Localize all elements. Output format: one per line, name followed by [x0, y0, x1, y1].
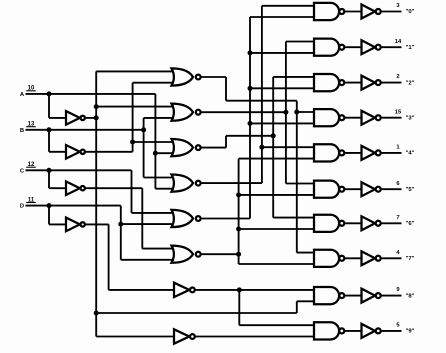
- junction G2 output at bus: [283, 110, 288, 115]
- wire A-bar (inverter A out to node): [85, 117, 96, 119]
- wire output "1": [381, 46, 402, 48]
- inverter D-bar: [66, 218, 85, 232]
- NAND gate Y9: [314, 322, 344, 339]
- wire NAND Y0 to inverter: [344, 11, 361, 13]
- wire NAND Y2 to inverter: [344, 82, 361, 84]
- wire output "9": [381, 330, 402, 332]
- svg-text:B: B: [20, 128, 24, 134]
- wire C-bar (inverter C out, down to NOR6 input): [85, 188, 174, 248]
- wire input A: [26, 94, 156, 118]
- junction B-bar vertical: [130, 140, 135, 145]
- input A pin 10 label: [26, 86, 36, 92]
- wire B-bar branch (NOR3.in1): [133, 141, 174, 143]
- wire output "2": [381, 82, 402, 84]
- wire input D: [26, 206, 121, 225]
- svg-text:"7": "7": [406, 256, 415, 262]
- inverter Y6 output: [362, 216, 381, 230]
- junctions on A-bar vertical: [94, 104, 99, 315]
- junction B line / branch: [141, 127, 146, 132]
- inverter U8 (A buffer): [174, 329, 195, 343]
- NAND gate Y6: [314, 215, 344, 232]
- junction A input: [47, 91, 52, 96]
- svg-text:"9": "9": [406, 329, 415, 335]
- wire input C: [26, 170, 132, 188]
- wire output "6": [381, 222, 402, 224]
- wire U8 output A (to NAND9.in2): [195, 336, 315, 338]
- wire U7 output D (to NAND8.in1 / NAND9.in1): [195, 290, 315, 325]
- inverter Y4 output: [362, 146, 381, 160]
- input B pin 13 label: [26, 122, 36, 128]
- NOR gate G2: [172, 104, 201, 121]
- junction D vertical at NOR5.in2: [118, 222, 123, 227]
- wire NAND Y3 to inverter: [344, 117, 361, 119]
- NAND gate Y7: [314, 250, 344, 267]
- inverter Y0 output: [362, 5, 381, 19]
- junction G4 bus at NAND4.in1: [259, 145, 264, 150]
- wire NAND Y8 to inverter: [344, 295, 361, 297]
- NAND gate Y8: [314, 287, 344, 304]
- svg-text:"1": "1": [406, 45, 415, 51]
- inverter Y9 output: [362, 324, 381, 338]
- wire NOR G2 output (to NAND1.in1 / NAND5.in1 bus): [201, 42, 314, 184]
- svg-text:"5": "5": [406, 187, 415, 193]
- NOR gate G1: [172, 68, 201, 85]
- wire D-bar (inverter D out, down to INV7 input): [85, 224, 174, 290]
- junction D input: [47, 203, 52, 208]
- inverter Y3 output: [362, 111, 381, 125]
- wire NAND Y1 to inverter: [344, 46, 361, 48]
- inverter Y7 output: [362, 251, 381, 265]
- junction G1 bus at NAND3.in1: [294, 110, 299, 115]
- junction U7 output branch: [237, 287, 242, 292]
- wire NAND Y7 to inverter: [344, 257, 361, 259]
- svg-text:14: 14: [395, 39, 402, 45]
- inverter A-bar: [66, 111, 85, 125]
- svg-text:"8": "8": [406, 293, 415, 299]
- inverter B-bar: [66, 145, 85, 159]
- wire output "3": [381, 117, 402, 119]
- junctions G5 bus: [248, 50, 253, 126]
- inverter Y5 output: [362, 182, 381, 196]
- NAND gate Y1: [314, 39, 344, 56]
- svg-text:"6": "6": [406, 221, 415, 227]
- NAND gate Y4: [314, 144, 344, 161]
- wire B branch vertical (NOR2.in2, NOR4.in1): [144, 118, 174, 178]
- wire C branch vertical (NOR5.in1): [132, 170, 174, 213]
- junctions G6 bus: [236, 192, 241, 256]
- svg-text:2: 2: [396, 74, 399, 80]
- wire NAND Y9 to inverter: [344, 330, 361, 332]
- inverter U7 (D buffer): [174, 283, 195, 297]
- wire A branch vertical (NOR3.in2, NOR4.in2): [155, 94, 173, 189]
- junction C input: [47, 168, 52, 173]
- junction B input: [47, 127, 52, 132]
- inverter Y2 output: [362, 76, 381, 90]
- NAND gate Y2: [314, 74, 344, 91]
- svg-text:"4": "4": [406, 151, 415, 157]
- wire NOR G6 output (to NAND4-7 .in2 bus): [201, 159, 314, 264]
- junction A vertical at NOR3.in2: [153, 151, 158, 156]
- junction G3 output at bus: [271, 133, 276, 138]
- wire NAND Y5 to inverter: [344, 188, 361, 190]
- NAND gate Y5: [314, 181, 344, 198]
- wire B-bar (inverter B out, up to NOR1 input): [85, 83, 174, 152]
- input D pin 11 label: [26, 197, 36, 203]
- wire output "0": [381, 11, 402, 13]
- wire output "4": [381, 152, 402, 154]
- inverter C-bar: [66, 181, 85, 195]
- input C pin 12 label: [26, 162, 36, 168]
- NOR gate G3: [172, 139, 201, 156]
- wire NAND Y4 to inverter: [344, 152, 361, 154]
- wire NAND Y6 to inverter: [344, 222, 361, 224]
- svg-text:D: D: [20, 204, 24, 210]
- wire NOR G1 output (to NAND3.in1 / NAND7.in1 bus): [201, 77, 314, 253]
- wire input B: [26, 130, 144, 152]
- wire A-bar vertical (NOR1.in1, NOR2.in1, NAND8.in, INV8.in): [96, 71, 314, 336]
- svg-text:15: 15: [395, 109, 402, 115]
- wire NOR G5 output (to NAND0-3 .in2 bus): [201, 17, 314, 219]
- svg-text:"2": "2": [406, 80, 415, 86]
- wire D branch vertical (NOR5.in2, NOR6.in2): [121, 206, 174, 260]
- wire output "7": [381, 257, 402, 259]
- NOR gate G5: [172, 210, 201, 227]
- inverter Y8 output: [362, 289, 381, 303]
- NAND gate Y0: [314, 3, 344, 20]
- svg-text:"3": "3": [406, 115, 415, 121]
- wire output "5": [381, 188, 402, 190]
- svg-text:"0": "0": [406, 9, 415, 15]
- NOR gate G4: [172, 175, 201, 192]
- NOR gate G6: [172, 246, 201, 263]
- inverter Y1 output: [362, 40, 381, 54]
- wire NOR G4 output (to NAND0.in1 / NAND4.in1 bus): [201, 6, 314, 183]
- NAND gate Y3: [314, 109, 344, 126]
- svg-text:7: 7: [396, 215, 399, 221]
- wire NOR G3 output (to NAND2.in1 / NAND6.in1 bus): [201, 77, 314, 218]
- wire output "8": [381, 295, 402, 297]
